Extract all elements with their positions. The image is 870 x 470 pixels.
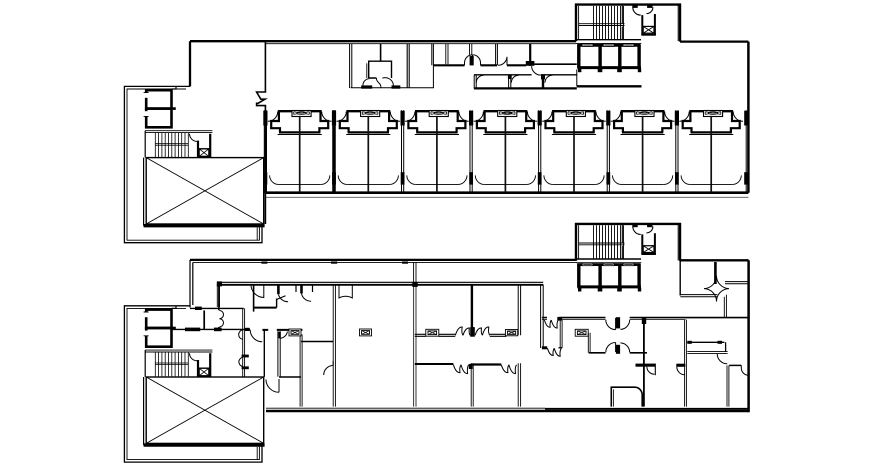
door bumps x243 [239, 330, 243, 367]
lower rooms bottom [474, 87, 577, 89]
bifold door 1 [455, 327, 470, 335]
vertical x644 [643, 320, 645, 407]
wall vertical j [529, 44, 531, 66]
mid wall m (y64) [534, 63, 576, 65]
wall y342 right [687, 341, 724, 343]
wall vertical c [407, 44, 409, 88]
right outer wall [747, 42, 750, 193]
corridor bifold door [544, 320, 558, 328]
left room bottom wall [190, 307, 244, 309]
double wall y352 [687, 352, 727, 354]
x644 notch [636, 364, 656, 367]
wall y329 segments [171, 328, 250, 330]
wall y329 jambs [185, 328, 200, 332]
lower bifold stub [542, 346, 547, 349]
small room x254-277 [253, 285, 255, 312]
closet room [369, 61, 392, 78]
vertical x519 lower [518, 363, 520, 406]
wall joint ticks [261, 262, 267, 264]
bottom wall inner line [266, 407, 545, 409]
door post vertical [470, 44, 472, 55]
HX box 2 [505, 330, 517, 336]
double door up y353 [606, 343, 630, 353]
mid wall y335 left [415, 334, 426, 336]
vertical x728 [727, 365, 729, 406]
stair tower [576, 5, 680, 73]
bifold door 3 (below wall) [453, 365, 468, 374]
right top wall [680, 40, 748, 42]
band left wall lower b [263, 329, 265, 376]
top wall inner line [193, 261, 577, 263]
left outer wall upper [189, 41, 191, 86]
notch arc [647, 367, 655, 375]
vertical x334 [333, 285, 335, 407]
vertical x415 [414, 285, 416, 407]
double door arcs up [465, 55, 473, 66]
lower mid wall y364 [415, 363, 454, 365]
elevator lobby wall [576, 69, 578, 86]
wall B left vertical [217, 285, 219, 307]
mid wall f [481, 64, 498, 66]
x685 door arc [677, 367, 685, 375]
door stub x278 [277, 285, 280, 294]
lower rooms top wall [474, 74, 577, 76]
closet door leaf [376, 78, 381, 88]
vertical x725 short [725, 342, 727, 351]
lower rooms verticals [474, 75, 511, 89]
vertical x472 lower [471, 363, 473, 406]
band left wall lower [264, 106, 266, 224]
wall y295 right [680, 295, 717, 297]
corridor vertical center [541, 285, 544, 348]
wall y341 [301, 341, 333, 343]
vertical x589 [588, 333, 590, 353]
top outer wall [190, 40, 576, 42]
wall vertical e2 [446, 44, 448, 64]
mid wall i [507, 64, 526, 66]
closet door shoulders [363, 79, 370, 86]
wall x472 vertical [471, 285, 473, 337]
vertical x205 [203, 310, 205, 329]
band right inner wall [745, 110, 747, 192]
x644 top jamb [642, 317, 646, 324]
door arc y329 [250, 330, 262, 342]
door stub y331 [279, 332, 281, 339]
arc y354 [717, 354, 727, 364]
band right top jamb [744, 111, 748, 126]
annex [124, 86, 264, 242]
x685 door stub [676, 364, 685, 367]
vertical x243 [243, 308, 245, 376]
wall y353 [589, 352, 647, 354]
ajar door leaf [277, 296, 286, 300]
door arc B down2 [339, 285, 352, 298]
wall vertical d [432, 44, 434, 88]
bottom closet bump [611, 387, 642, 406]
top wall inner line [266, 43, 576, 45]
wall y330 segs right [262, 329, 302, 331]
stair tower copy [576, 224, 680, 292]
wall x685 [685, 320, 687, 407]
vertical x519 [518, 285, 520, 336]
mid wall y335 seg2 [439, 334, 456, 336]
lower bifold door [547, 348, 561, 356]
corridor wall right y318 [542, 317, 749, 319]
lower rooms jambs [508, 74, 512, 79]
door stub x301 [300, 285, 303, 294]
wall break symbol [257, 92, 267, 106]
closet stem [380, 44, 382, 62]
bottom wall jambs [361, 85, 372, 88]
lobby bottom wall [577, 85, 642, 87]
door arc B down [251, 285, 264, 298]
HX box 4 [360, 329, 372, 336]
corridor vertical x561 [560, 320, 562, 348]
wall y283 right [725, 282, 749, 284]
bifold door 2 [475, 327, 490, 335]
corner jamb [526, 61, 535, 66]
mid wall y335 seg3 [490, 334, 507, 336]
band left wall upper [264, 41, 266, 92]
center post [470, 327, 475, 337]
door arc k [532, 66, 541, 75]
corridor end vertical [724, 295, 726, 318]
right top wall [680, 259, 749, 261]
bifold door vertical x220 [219, 311, 223, 327]
HX box 1 [426, 329, 439, 336]
arc right wall [741, 365, 748, 375]
room wall vertical a [350, 44, 352, 88]
notch stub [654, 364, 656, 376]
top outer wall [190, 259, 577, 261]
left outer wall [190, 260, 193, 308]
HX box 3 [289, 329, 301, 336]
HX box 5 [575, 329, 588, 336]
corridor double door bumps [606, 318, 630, 330]
upper right door stub [714, 262, 717, 284]
band bottom wall [265, 191, 749, 194]
mid wall e [433, 64, 464, 66]
right outer wall [747, 260, 750, 412]
lower jamb [469, 364, 473, 369]
rooms bottom wall [351, 87, 434, 89]
bottom outer wall [266, 410, 749, 412]
pinwheel door [704, 276, 729, 302]
wall x220 lower [218, 285, 220, 330]
wall B horizontal [219, 281, 544, 283]
corridor jamb [557, 317, 562, 321]
door arc h [498, 57, 507, 66]
door arc x334 [324, 361, 334, 375]
wall vertical g [496, 44, 498, 66]
door arc y377 [266, 379, 279, 392]
vertical x301 [300, 334, 302, 406]
door stubs below wall B [296, 286, 313, 293]
upper right room left wall [679, 260, 681, 295]
annex copy [124, 306, 264, 462]
room wall y377 [279, 376, 301, 378]
lower room arcs [476, 75, 483, 82]
vertical x279 [278, 331, 280, 376]
bifold door 4 (below wall) [501, 365, 516, 374]
wall y365 right [729, 364, 741, 366]
